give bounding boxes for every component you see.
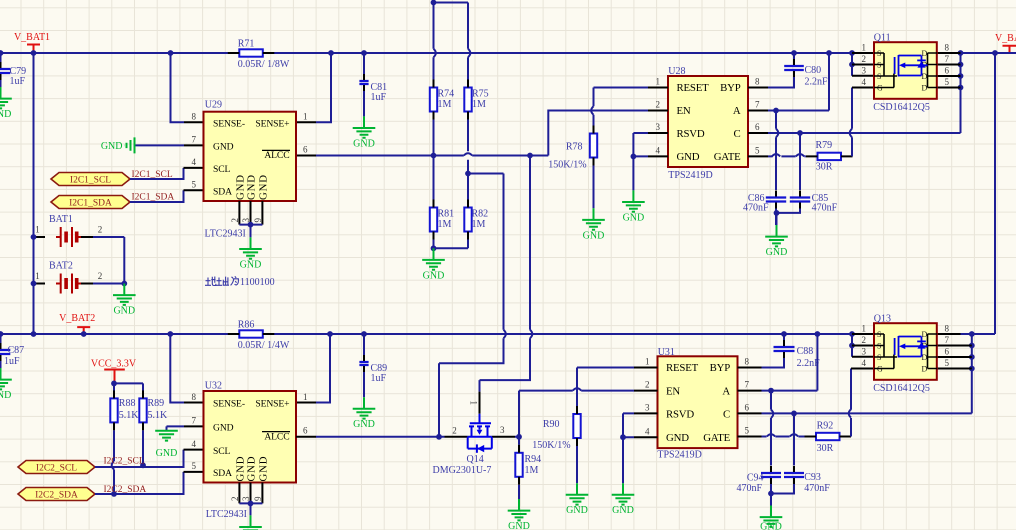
wire rail2 V_BAT2 net [0,333,995,335]
svg-text:6: 6 [303,426,308,436]
wire top loop [434,3,469,49]
pins U32 2 3 9 [239,483,262,504]
ground C87 [0,368,12,401]
svg-text:4: 4 [656,146,661,156]
wire Q11 source bus [851,53,853,76]
wire C85 bottom [777,209,801,226]
svg-text:C: C [733,128,740,140]
svg-text:SCL: SCL [213,164,231,175]
wire EN2 net [519,391,634,437]
svg-text:GND: GND [258,456,270,482]
svg-text:8: 8 [192,392,197,402]
svg-text:GND: GND [623,212,645,223]
wire U31 C net [762,412,972,414]
resistor R74 [430,80,437,120]
wire U32 pin8 riser [170,334,184,403]
svg-text:RESET: RESET [677,82,710,94]
resistor R90 [573,406,580,446]
ground C93 C94 [760,506,783,527]
svg-text:8: 8 [745,357,750,367]
svg-text:3: 3 [656,122,661,132]
svg-text:SENSE-: SENSE- [213,399,245,410]
svg-text:LTC2943I: LTC2943I [206,509,247,520]
op-amp U32 LTC2943 [204,381,297,520]
text comment address 1100100 [205,276,238,285]
wire C88 top [783,334,785,340]
wire C93 bottom [771,484,794,494]
svg-text:8: 8 [755,77,760,87]
svg-text:9: 9 [253,218,263,223]
wire U31 RSVD GND tie [623,413,634,483]
wire U32 gnd tie [239,503,262,515]
svg-text:U28: U28 [668,66,685,77]
wire BAT1 pin2 down [93,237,124,284]
wire BAT2 pin2 [93,283,124,285]
pin U32.1 [296,402,316,404]
svg-text:1M: 1M [472,99,486,110]
svg-text:6: 6 [303,145,308,155]
svg-text:2: 2 [98,271,103,281]
svg-text:GND: GND [423,270,445,281]
svg-text:R88: R88 [119,398,136,409]
wire R88 to SDA [113,430,115,494]
svg-text:2: 2 [230,218,240,223]
wire pin7 gnd [167,426,185,430]
transistor Q11 CSD16412Q5 [873,32,937,113]
wire ALCC net [316,155,530,157]
svg-text:2.2nF: 2.2nF [805,77,829,88]
resistor R86 [228,330,274,337]
svg-text:SDA: SDA [213,468,232,479]
wire R81 R82 bottoms [434,240,469,249]
capacitor C87 [0,343,10,362]
pin U29.1 [296,121,316,123]
pin U29.5 [184,189,204,191]
ground U32 pin7 [155,431,178,459]
pin U29.7 [184,144,204,146]
svg-text:4: 4 [862,77,867,87]
transistor Q13 CSD16412Q5 [873,313,937,394]
wire A2 to C94 [770,391,772,466]
wire U28 C net [768,132,961,134]
power flag VCC_3.3V [91,359,137,383]
svg-text:C80: C80 [805,65,822,76]
wire R79 to Q11 gate [851,88,853,157]
wire U28 pin1 to R78 [594,88,649,126]
svg-text:GND: GND [508,521,530,530]
svg-text:5: 5 [745,426,750,436]
ground C85 C86 [765,225,788,258]
svg-text:C88: C88 [797,346,814,357]
svg-text:1: 1 [656,77,661,87]
svg-text:C94: C94 [747,472,764,483]
svg-text:1: 1 [469,401,479,406]
svg-text:C93: C93 [804,472,821,483]
power flag V_BAT1 [14,32,50,52]
svg-text:1uF: 1uF [4,356,20,367]
wire V_BAT right chain [994,53,996,334]
svg-text:GATE: GATE [714,151,741,163]
wire R74 bottom [433,120,435,156]
wire C81 to gnd [363,91,365,116]
svg-text:SDA: SDA [213,187,232,198]
svg-text:GND: GND [612,505,634,516]
svg-text:TPS2419D: TPS2419D [668,170,712,181]
svg-text:C: C [723,408,730,420]
pin U29.4 [184,167,204,169]
svg-text:GATE: GATE [703,432,730,444]
wire SDA2 [95,472,184,494]
svg-text:EN: EN [677,105,691,117]
svg-text:3: 3 [645,403,650,413]
resistor R92 [805,433,852,440]
svg-text:RSVD: RSVD [677,128,705,140]
wire U29 pin1 riser [316,53,331,122]
svg-text:I2C2_SCL: I2C2_SCL [104,456,145,466]
wire GATE to R79 [768,155,806,157]
pins U31 1 2 3 4 [634,368,658,438]
capacitor C86 [766,191,786,210]
svg-text:7: 7 [745,380,750,390]
svg-text:D: D [922,365,928,374]
svg-text:VCC_3.3V: VCC_3.3V [91,359,137,370]
resistor R81 [430,200,437,240]
svg-text:9: 9 [253,496,263,501]
capacitor C93 [784,466,804,485]
svg-text:SENSE-: SENSE- [213,118,245,129]
svg-text:GND: GND [101,141,123,152]
pins U28 8 7 6 5 [748,88,768,157]
wire VCC to R89 [114,383,143,390]
svg-text:Q14: Q14 [467,454,484,465]
svg-text:R81: R81 [438,209,455,220]
svg-text:Q13: Q13 [874,313,891,324]
wire R71 stubs [228,52,274,54]
svg-text:C87: C87 [8,345,25,356]
wire C89 to gnd [363,372,365,397]
resistor R94 [515,445,522,485]
pin U32.5 [184,471,204,473]
svg-text:R78: R78 [566,142,583,153]
svg-text:GND: GND [666,432,689,444]
pin U32.8 [184,402,204,404]
wire C79 top [0,53,2,63]
wire R92 to Q13 gate [850,369,852,437]
svg-text:GND: GND [766,247,788,258]
capacitor C89 [359,355,368,373]
svg-text:2: 2 [862,54,867,64]
ground U32 [239,515,262,530]
port I2C2_SCL [18,461,95,474]
pins U28 1 2 3 4 [648,88,668,157]
svg-text:GND: GND [677,151,700,163]
wire C89 top [363,334,365,355]
wire C86 bottom [775,209,777,226]
svg-text:3: 3 [241,496,251,501]
svg-text:30R: 30R [817,443,834,454]
svg-text:GND: GND [258,174,270,200]
wire VCC to R88 [113,383,115,390]
svg-text:BAT1: BAT1 [49,214,73,225]
svg-text:4: 4 [192,157,197,167]
svg-text:I2C2_SDA: I2C2_SDA [35,491,78,501]
wire U28 A net to rail [768,53,829,111]
wire U28 RSVD GND tie [633,133,648,190]
svg-text:3: 3 [862,347,867,357]
resistor R82 [464,200,471,240]
pin Q11.1 [852,52,874,54]
resistor R75 [464,80,471,120]
ground port U29 pin7 [101,137,135,153]
wire C2 to C93 [793,413,795,465]
svg-text:SENSE+: SENSE+ [255,118,289,129]
svg-text:7: 7 [945,335,950,345]
wire C80 to BYP [768,77,794,88]
wire U28 EN net [530,111,648,156]
svg-text:R92: R92 [817,420,834,431]
svg-text:6: 6 [755,122,760,132]
svg-text:1: 1 [35,225,40,235]
wire C80 top [793,53,795,59]
pin U29.6 [296,155,316,157]
svg-text:A: A [733,105,741,117]
pin U32.4 [184,449,204,451]
wire C94 bottom [770,484,772,506]
wire loop to R74 R75 [434,57,469,79]
svg-text:5.1K: 5.1K [119,410,140,421]
svg-text:V_BAT1: V_BAT1 [14,32,50,43]
capacitor C80 [784,59,804,78]
svg-text:5: 5 [945,77,950,87]
svg-text:4: 4 [862,358,867,368]
wire Q14 pin wires [439,436,519,438]
wire R89 to SCL [142,430,144,465]
wire Q11 drain bus [960,53,962,133]
svg-text:R86: R86 [238,319,255,330]
svg-text:R74: R74 [438,88,455,99]
svg-text:5.1K: 5.1K [148,410,169,421]
wire to R81 [433,156,435,200]
wire C79 to gnd [0,80,2,87]
capacitor C85 [790,191,810,210]
svg-text:SENSE+: SENSE+ [255,399,289,410]
ground R78 [582,208,605,241]
svg-text:1M: 1M [525,465,539,476]
svg-text:2: 2 [98,225,103,235]
svg-text:R79: R79 [816,140,833,151]
ground U28 [622,190,645,223]
svg-text:ALCC: ALCC [264,431,289,442]
resistor R88 [110,390,117,430]
svg-text:V_BA: V_BA [995,33,1016,44]
svg-text:2: 2 [862,335,867,345]
svg-text:470nF: 470nF [804,483,830,494]
svg-text:ALCC: ALCC [264,150,289,161]
svg-text:GND: GND [240,259,262,270]
port I2C1_SCL [51,173,130,186]
svg-text:R90: R90 [543,419,560,430]
pin U32.7 [184,425,204,427]
svg-text:1M: 1M [438,99,452,110]
svg-text:GND: GND [353,419,375,430]
pin Q13.1 [852,333,874,335]
wire U29 gnd tie [239,225,262,238]
wire SCL1 [130,168,184,179]
svg-text:1: 1 [862,43,867,53]
pin Q11.4 [852,87,874,89]
svg-text:D: D [922,84,928,93]
svg-text:I2C1_SDA: I2C1_SDA [132,192,175,202]
svg-text:GND: GND [156,448,178,459]
svg-text:GND: GND [213,142,234,153]
svg-text:3: 3 [500,425,505,435]
svg-text:C89: C89 [371,363,388,374]
svg-text:Q11: Q11 [874,32,891,43]
capacitor C88 [774,340,795,359]
pin Q13.8 [937,333,961,335]
svg-text:1M: 1M [472,219,486,230]
wire C88 to BYP2 [762,358,785,368]
svg-text:4: 4 [645,426,650,436]
svg-text:A: A [722,385,730,397]
pin Q13.4 [851,368,874,370]
svg-text:1uF: 1uF [371,92,387,103]
svg-text:5: 5 [192,461,197,471]
pins Q11 2 3 [852,65,874,76]
wire R94 to gnd [518,485,520,499]
pin U32.6 [296,436,316,438]
wire rail1 V_BAT1 net [0,52,1016,54]
wire C to C85 [799,133,801,190]
resistor R79 [806,153,853,160]
svg-text:C81: C81 [371,82,388,93]
svg-text:BYP: BYP [710,362,731,374]
pins Q13 2 3 [852,346,874,357]
svg-text:150K/1%: 150K/1% [548,159,586,170]
svg-text:BYP: BYP [720,82,741,94]
svg-text:8: 8 [945,324,950,334]
wire Q14 to R94 [518,437,520,445]
capacitor C94 [761,466,781,485]
svg-text:7: 7 [192,135,197,145]
svg-text:I2C2_SCL: I2C2_SCL [36,464,77,474]
svg-text:R71: R71 [238,38,255,49]
op-amp U28 TPS2419D [668,66,748,181]
svg-text:470nF: 470nF [736,483,762,494]
svg-text:GND: GND [353,138,375,149]
wire pin7 to gnd port [136,144,185,146]
svg-text:1: 1 [303,112,308,122]
svg-text:2: 2 [645,380,650,390]
svg-text:U32: U32 [205,381,222,392]
svg-text:BAT2: BAT2 [49,261,73,272]
svg-text:R75: R75 [472,88,489,99]
svg-text:R94: R94 [525,454,542,465]
svg-text:1uF: 1uF [10,76,26,87]
wire GATE2 to R92 [762,436,805,438]
svg-text:EN: EN [666,385,680,397]
svg-text:1uF: 1uF [371,373,387,384]
svg-text:2: 2 [656,100,661,110]
svg-text:U31: U31 [658,347,675,358]
wire U31 A net to rail [762,334,818,391]
svg-text:GND: GND [566,505,588,516]
wire SCL2 [95,450,184,467]
svg-text:TPS2419D: TPS2419D [657,449,701,460]
ground R81 R82 [422,248,445,281]
port I2C2_SDA [18,488,95,501]
svg-text:GND: GND [583,230,605,241]
wire R90 to gnd [576,446,578,483]
ground R94 [508,499,531,530]
wire R75 node to Q14 [439,174,504,438]
svg-text:RSVD: RSVD [666,408,694,420]
wire EN chain to Q14 gate [480,156,531,392]
svg-text:GND: GND [246,456,258,482]
resistor R71 [228,49,274,56]
svg-text:R89: R89 [148,398,165,409]
wire C87 to gnd [0,361,2,368]
wire ALCC2 net [316,436,439,438]
svg-text:7: 7 [192,416,197,426]
wire U32 pin1 riser [316,334,330,403]
wire R78 to gnd [593,166,595,209]
svg-text:6: 6 [745,403,750,413]
wire SDA1 [130,190,184,202]
op-amp U29 LTC2943 [204,99,297,239]
svg-text:1: 1 [303,392,308,402]
svg-text:I2C1_SDA: I2C1_SDA [69,199,112,209]
svg-text:6: 6 [945,347,950,357]
wire C87 top [0,334,2,344]
svg-text:0.05R/ 1/4W: 0.05R/ 1/4W [238,340,290,351]
wire R86 stubs [228,333,274,335]
wire Q13 drain bus [971,334,973,413]
wire Q13 source bus [851,334,853,357]
svg-text:5: 5 [945,358,950,368]
svg-text:3: 3 [241,218,251,223]
wire U31 RESET to R90 [577,368,634,407]
wire A to C86 [775,111,777,191]
port I2C1_SDA [51,196,130,209]
power flag V_BAT2 [59,313,95,333]
pins Q11 8 7 6 5 [937,53,961,88]
svg-text:8: 8 [945,43,950,53]
svg-text:DMG2301U-7: DMG2301U-7 [433,465,492,476]
svg-text:GND: GND [0,390,11,401]
svg-text:LTC2943I: LTC2943I [205,228,246,239]
ground U29 [239,237,262,270]
svg-text:GND: GND [0,109,11,120]
pins Q13 7 6 5 [937,346,972,369]
pins U29 2 3 9 [239,201,262,225]
op-amp U31 TPS2419D [657,347,737,460]
svg-text:1M: 1M [438,219,452,230]
svg-text:2: 2 [452,426,457,436]
svg-text:CSD16412Q5: CSD16412Q5 [873,383,930,394]
svg-text:8: 8 [192,112,197,122]
wire battery chain [33,53,35,334]
wire U29 pin8 riser [171,53,185,122]
svg-text:6: 6 [945,66,950,76]
svg-text:5: 5 [755,146,760,156]
resistor R78 [590,126,597,166]
svg-text:1: 1 [862,324,867,334]
svg-text:5: 5 [192,180,197,190]
ground C89 [353,397,376,430]
svg-text:GND: GND [113,306,135,317]
ground C79 [0,87,12,120]
